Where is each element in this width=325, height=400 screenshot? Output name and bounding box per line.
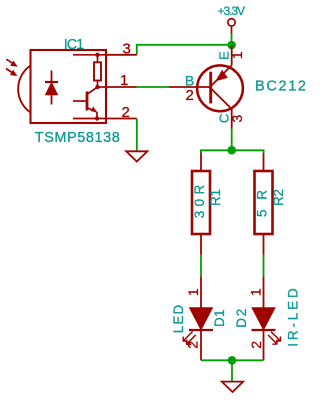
IC1 pin 3 stub: [106, 54, 137, 56]
svg-text:1: 1: [120, 72, 128, 89]
IR incoming arrow 1: [6, 59, 17, 66]
internal transistor base line: [73, 100, 87, 102]
wire IC1 pin1 to Q1 base: [137, 86, 169, 88]
svg-text:3: 3: [229, 114, 245, 122]
svg-text:IR-LED: IR-LED: [286, 288, 301, 347]
Q emitter diagonal: [211, 65, 232, 86]
wire power to junction: [231, 34, 233, 46]
internal emitter drop: [96, 112, 98, 119]
node resistor top: [95, 53, 99, 57]
wire R2 to D2: [263, 255, 265, 277]
IC1 internal mid rail: [98, 86, 106, 88]
wire R1 to D1: [200, 255, 202, 277]
resistor R2: [255, 153, 273, 255]
power symbol +3.3V: [228, 19, 235, 34]
Q collector pin vertical: [231, 109, 233, 129]
D2 emission arrow 2: [268, 335, 277, 344]
IC1 internal bottom rail: [73, 118, 106, 120]
wire IC1 pin2 to ground: [136, 119, 138, 152]
LED D1: [189, 276, 213, 360]
wire junction to ground: [231, 360, 233, 381]
svg-text:2: 2: [186, 87, 194, 104]
ground under IC1: [126, 151, 147, 161]
svg-text:2: 2: [122, 104, 130, 121]
D1 emission arrow 2: [187, 335, 196, 345]
svg-text:30R: 30R: [192, 185, 207, 219]
Q base pin: [169, 86, 211, 88]
D1 emission arrow 1: [183, 331, 192, 341]
internal transistor base bar: [86, 92, 89, 111]
node emitter/pin2: [95, 116, 99, 120]
svg-text:R1: R1: [208, 189, 223, 206]
junction resistor rail: [227, 146, 236, 155]
svg-text:LED: LED: [171, 305, 186, 334]
LED D2: [252, 276, 276, 360]
junction at emitter: [227, 41, 236, 50]
wire LED cathode rail: [201, 359, 264, 361]
wire Q collector to resistor rail: [231, 129, 233, 151]
svg-text:+3.3V: +3.3V: [218, 4, 246, 18]
Q collector diagonal: [211, 89, 232, 110]
svg-text:2: 2: [248, 341, 264, 349]
IC1 internal top rail: [73, 54, 106, 56]
internal transistor emitter diagonal with arrow: [88, 108, 97, 112]
svg-text:BC212: BC212: [255, 79, 306, 95]
IC1 pin 2 stub: [106, 118, 137, 120]
svg-text:1: 1: [185, 288, 201, 296]
internal transistor collector diagonal: [88, 87, 98, 94]
svg-text:R2: R2: [271, 189, 286, 206]
internal resistor leads: [97, 55, 99, 63]
wire IC1 pin3 to junction: [137, 45, 232, 55]
internal resistor body: [94, 62, 101, 80]
IC1 pin 1 stub: [106, 86, 137, 88]
Q emitter pin vertical: [231, 45, 233, 65]
photodiode inside IC1: [45, 71, 58, 105]
svg-text:D1: D1: [212, 309, 227, 327]
IR incoming arrow 2: [6, 69, 17, 76]
svg-text:TSMP58138: TSMP58138: [35, 130, 120, 146]
svg-text:3: 3: [123, 41, 131, 58]
node collector/pin1: [95, 85, 99, 89]
Q base bar: [209, 72, 212, 104]
ground bottom: [222, 382, 243, 392]
svg-text:1: 1: [229, 51, 245, 59]
junction cathode rail: [228, 356, 237, 365]
wire resistor top rail: [201, 150, 264, 153]
D2 emission arrow 1: [271, 332, 281, 342]
IC1 body box: [31, 50, 107, 123]
svg-text:2: 2: [185, 341, 201, 349]
Q emitter arrow (PNP): [217, 71, 227, 80]
Q circle: [197, 65, 243, 111]
resistor R1: [192, 153, 210, 255]
svg-text:D2: D2: [234, 309, 249, 328]
svg-text:1: 1: [248, 288, 264, 296]
IC1 lens arc: [18, 66, 30, 113]
